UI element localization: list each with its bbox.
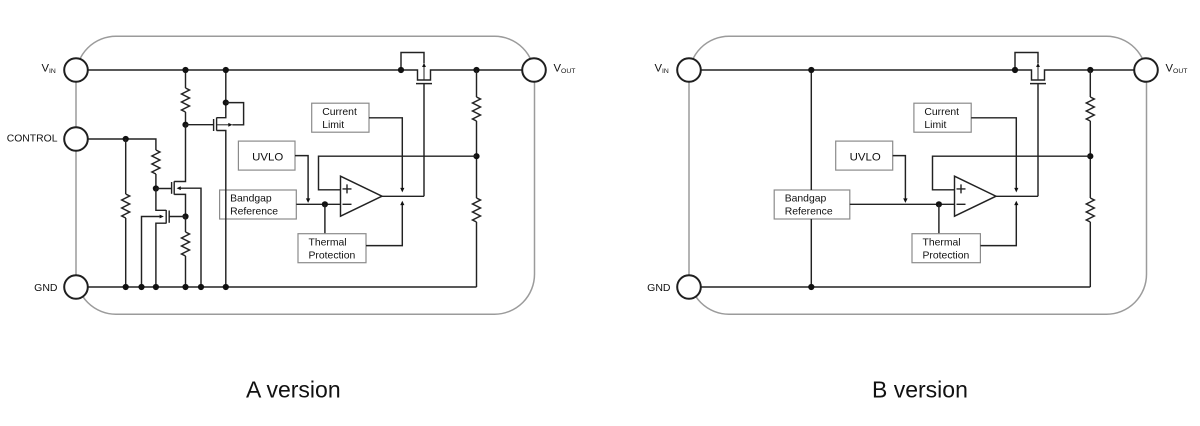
resistor R1' upper feedback divider	[1086, 97, 1094, 121]
wire: GND bottom rail	[701, 286, 1091, 288]
transistor Q4 gate bar	[168, 211, 170, 223]
node: mirror gate junction	[182, 122, 188, 128]
pin GND	[677, 275, 701, 299]
svg-text:VIN: VIN	[655, 63, 669, 76]
wire: reference node to Thermal Protection	[938, 204, 940, 233]
wire: control divider drop	[125, 139, 127, 194]
arrow: thermal shutdown control (up)	[1014, 201, 1018, 205]
transistor Q4 bulk arrow	[160, 215, 164, 219]
node: GND junctions	[123, 284, 129, 290]
transistor Q1 bulk-source loop wire	[401, 53, 424, 71]
op-amp U1 plus symbol	[343, 184, 352, 193]
wire: mirror gate to Q2	[186, 124, 214, 126]
transistor Q4 bulk wire to GND	[142, 217, 160, 288]
svg-text:VOUT: VOUT	[1166, 63, 1188, 76]
wire: divider bottom segment to GND rail	[1089, 222, 1091, 287]
wire: VIN top rail	[701, 70, 1135, 80]
op-amp U1' plus symbol	[957, 184, 966, 193]
transistor Q3 gate bar	[171, 182, 173, 194]
resistor R5 bias from VIN	[182, 88, 190, 112]
pin GND	[64, 275, 88, 299]
wire: UVLO to reference node	[295, 156, 308, 199]
wire: reference node to Thermal Protection	[324, 204, 326, 233]
wire: VIN to bias resistor	[185, 70, 187, 88]
svg-text:B version: B version	[872, 377, 968, 403]
block: Thermal Protection	[912, 234, 980, 263]
wire: bandgap reference to op-amp - input	[850, 203, 955, 205]
transistor Q3 bulk arrow	[177, 186, 181, 190]
block: Current Limit	[914, 103, 971, 132]
svg-text:VIN: VIN	[42, 63, 56, 76]
svg-text:GND: GND	[647, 282, 671, 294]
transistor Q2 channel bar	[216, 118, 218, 131]
block: Current Limit	[312, 103, 369, 132]
pin VIN	[677, 58, 701, 82]
node: VOUT rail junction above divider	[1087, 67, 1093, 73]
node: GND junction (B)	[808, 284, 814, 290]
arrow: UVLO control (down)	[903, 198, 907, 203]
wire: divider middle segment	[1089, 121, 1091, 198]
wire: R6 to GND	[185, 256, 187, 287]
resistor R6 source degeneration	[182, 232, 190, 256]
resistor R3 control pulldown	[122, 194, 130, 218]
wire: Current Limit to output node	[369, 118, 402, 189]
transistor Q3 source wire	[174, 194, 185, 216]
node: feedback tap junction	[1087, 153, 1093, 159]
transistor Q4 channel bar	[165, 210, 167, 224]
transistor Q2 mirror PMOS gate bar	[213, 119, 215, 131]
transistor Q1 bulk stub wire	[423, 67, 425, 80]
transistor Q1' pass PMOS gate plate	[1030, 83, 1046, 85]
wire: Q4 gate connection	[169, 216, 185, 218]
op-amp U1' error amplifier	[955, 176, 997, 216]
svg-text:CONTROL: CONTROL	[7, 134, 58, 145]
arrow: thermal shutdown control (up)	[400, 201, 404, 205]
wire: divider middle segment	[476, 121, 478, 198]
transistor Q2 bulk arrow	[228, 123, 232, 127]
transistor Q1' bulk stub wire	[1037, 67, 1039, 80]
node: VIN junction at pass transistor	[1012, 67, 1018, 73]
node: VOUT rail junction above divider	[473, 67, 479, 73]
block: Bandgap Reference	[220, 190, 297, 219]
arrow: UVLO control (down)	[306, 198, 310, 203]
op-amp U1 minus symbol	[343, 203, 352, 205]
pin CONTROL	[64, 127, 88, 151]
transistor Q1' bulk arrow	[1036, 63, 1040, 67]
wire: Current Limit to output node	[971, 118, 1016, 189]
wire: CONTROL row	[88, 139, 156, 150]
wire: feedback to op-amp + input	[933, 156, 1091, 190]
node: VIN junction at pass transistor	[398, 67, 404, 73]
pin VOUT	[522, 58, 546, 82]
resistor R4 control series	[152, 150, 160, 174]
pin VOUT	[1134, 58, 1158, 82]
wire: UVLO to reference node	[893, 156, 906, 199]
wire: Q2 source through bandgap to GND	[217, 131, 226, 288]
node: reference junction	[936, 201, 942, 207]
svg-text:UVLO: UVLO	[850, 152, 881, 164]
node: reference junction	[322, 201, 328, 207]
node: VIN junction above Q2	[223, 67, 229, 73]
transistor Q3 bulk wire to GND	[181, 188, 201, 287]
wire: R5 to mirror gate node	[185, 112, 187, 125]
svg-text:GND: GND	[34, 282, 58, 294]
wire: op-amp output to pass gate	[382, 195, 424, 197]
node: Q3 gate / Q4 drain junction	[153, 185, 159, 191]
transistor Q4 drain wire	[156, 189, 166, 211]
transistor Q3 channel bar	[173, 181, 175, 194]
node: feedback tap junction	[473, 153, 479, 159]
transistor Q1 gate lead wire	[423, 84, 425, 197]
svg-text:VOUT: VOUT	[554, 63, 576, 76]
wire: Thermal Protection to output node	[980, 205, 1016, 246]
transistor Q2 bulk to channel wire	[217, 124, 229, 126]
wire: bandgap reference to op-amp - input	[296, 203, 340, 205]
wire: R4 to gate node	[155, 174, 157, 189]
wire: bandgap supply from VIN (B)	[810, 70, 812, 190]
wire: feedback to op-amp + input	[319, 156, 477, 190]
node: VIN bias junction	[182, 67, 188, 73]
wire: GND bottom rail	[88, 286, 477, 288]
block: Bandgap Reference	[774, 190, 850, 219]
node: Q2 drain junction	[223, 100, 229, 106]
IC package outline	[689, 36, 1147, 314]
block: UVLO	[238, 141, 295, 170]
wire: Q3 gate connection	[156, 188, 172, 190]
arrow: current limit control (down)	[1014, 188, 1018, 193]
transistor Q1' gate lead wire	[1037, 84, 1039, 197]
transistor Q1' bulk-source loop wire	[1015, 53, 1038, 71]
transistor Q1 bulk arrow	[422, 63, 426, 67]
node: CONTROL junction	[123, 136, 129, 142]
node: Q3 source / Q4 gate junction	[182, 213, 188, 219]
resistor R2 lower feedback divider	[473, 198, 481, 222]
svg-text:UVLO: UVLO	[252, 152, 283, 164]
wire: bandgap to GND (B)	[810, 219, 812, 287]
block: UVLO	[836, 141, 893, 170]
wire: divider top segment	[476, 70, 478, 97]
transistor Q1 pass PMOS gate plate	[416, 83, 432, 85]
wire: node to R6	[185, 217, 187, 233]
node: VIN junction (B)	[808, 67, 814, 73]
wire: Thermal Protection to output node	[366, 205, 402, 246]
pin VIN	[64, 58, 88, 82]
wire: divider bottom segment to GND rail	[476, 222, 478, 287]
resistor R2' lower feedback divider	[1086, 198, 1094, 222]
resistor R1 upper feedback divider	[473, 97, 481, 121]
transistor Q3 drain wire	[174, 125, 185, 182]
transistor Q4 source wire	[156, 223, 166, 287]
transistor Q2 bulk loop wire	[226, 103, 244, 125]
op-amp U1 error amplifier	[341, 176, 383, 216]
wire: R3 to GND	[125, 218, 127, 287]
transistor Q2 drain wire to VIN rail	[217, 70, 226, 118]
wire: VIN top rail	[88, 70, 523, 80]
wire: op-amp output to pass gate	[996, 195, 1038, 197]
IC package outline	[76, 36, 535, 314]
wire: divider top segment	[1089, 70, 1091, 97]
op-amp U1' minus symbol	[957, 203, 966, 205]
arrow: current limit control (down)	[400, 188, 404, 193]
svg-text:A version: A version	[246, 377, 341, 403]
block: Thermal Protection	[298, 234, 366, 263]
